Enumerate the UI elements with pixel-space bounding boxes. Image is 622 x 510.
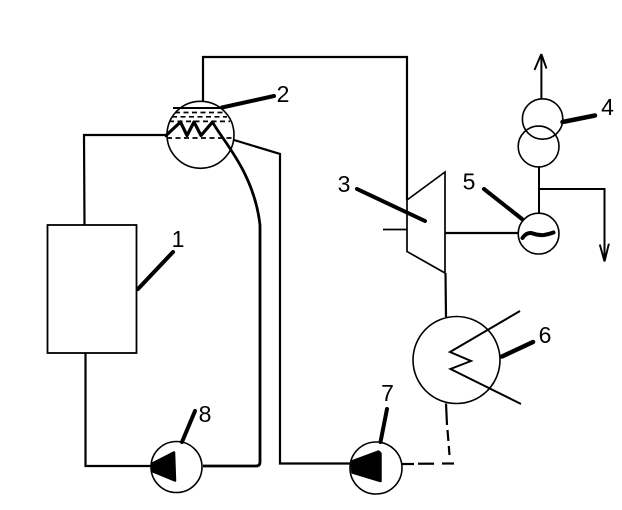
wire: generator to transformer xyxy=(538,167,540,213)
drum 2 dashed level line d xyxy=(167,137,233,139)
wire: downcomer curve from drum coil to pump 8 outlet line xyxy=(203,122,260,466)
label leader 6 xyxy=(502,342,533,357)
generator 5 circle xyxy=(518,213,559,254)
drum 2 water level solid line xyxy=(173,107,222,109)
wire: boiler bottom to pump 8 inlet xyxy=(86,353,152,466)
label leader 7 xyxy=(381,409,388,442)
drum 2 heating zigzag coil xyxy=(166,122,213,136)
transformer 4 upper circle xyxy=(522,99,562,139)
label leader 5 xyxy=(484,189,522,219)
svg-text:5: 5 xyxy=(463,169,476,195)
wire: pump 7 outlet solid segment xyxy=(402,463,414,465)
svg-text:4: 4 xyxy=(601,94,614,120)
svg-text:1: 1 xyxy=(172,226,185,252)
wire: condenser bottom solid stub xyxy=(446,404,447,426)
drum 2 dashed level line b xyxy=(172,116,227,118)
drum 2 dashed level line a xyxy=(175,112,225,114)
turbine 3 xyxy=(407,172,445,273)
boiler 1 xyxy=(48,225,137,353)
wire: turbine shaft to generator 5 xyxy=(445,232,518,234)
label leader 8 xyxy=(182,411,195,442)
pump 7 impeller triangle xyxy=(352,452,381,482)
label leader 1 xyxy=(138,252,173,289)
wire: steam line drum top to turbine inlet xyxy=(203,57,407,200)
label leader 4 xyxy=(563,116,596,123)
label leader 2 xyxy=(222,96,274,108)
svg-text:3: 3 xyxy=(338,171,351,197)
wire: dashed condensate horizontal dash xyxy=(418,463,434,465)
wire: transformer output up with arrow xyxy=(540,55,542,99)
wire: condensate return drum right side down to pump 7 xyxy=(234,140,350,464)
arrowhead up xyxy=(535,54,547,70)
wire: generator branch to right and down xyxy=(539,189,605,261)
generator 5 tilde symbol xyxy=(523,233,554,239)
arrowhead down xyxy=(600,244,609,262)
svg-text:2: 2 xyxy=(277,81,290,107)
wire: drum left outlet to boiler top xyxy=(84,135,167,225)
condenser 6 cooling water coil xyxy=(450,311,521,404)
wire: dashed condensate line vertical xyxy=(448,430,450,455)
transformer 4 lower circle xyxy=(518,126,559,167)
condenser 6 circle xyxy=(413,317,500,404)
drum 2 circle xyxy=(167,101,234,168)
drum 2 dashed level line c xyxy=(169,120,230,122)
pump 8 circle xyxy=(151,442,202,493)
pump 8 impeller triangle xyxy=(153,453,176,481)
wire: turbine exhaust to condenser top xyxy=(444,273,447,317)
svg-text:6: 6 xyxy=(539,322,552,348)
turbine 3 left stub xyxy=(383,229,407,231)
svg-text:8: 8 xyxy=(199,401,212,427)
wire: dashed condensate corner dash xyxy=(442,462,454,464)
svg-text:7: 7 xyxy=(381,380,394,406)
pump 7 circle xyxy=(350,442,402,494)
label leader 3 xyxy=(357,189,425,221)
